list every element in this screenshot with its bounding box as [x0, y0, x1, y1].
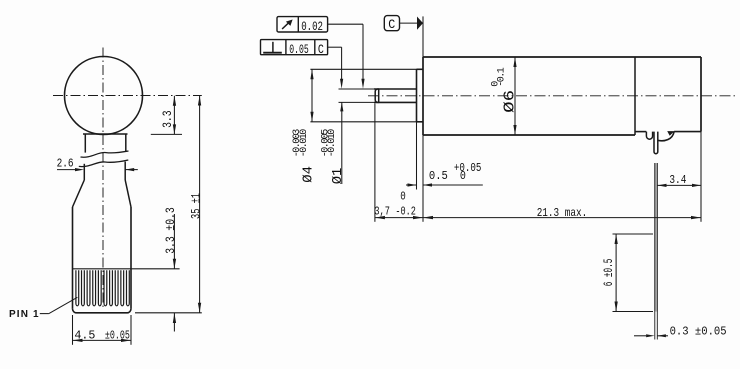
- knurl grooves: [76, 270, 129, 306]
- bushing extension lines: [310, 69, 416, 122]
- svg-text:0.3 ±0.05: 0.3 ±0.05: [670, 324, 727, 338]
- body cap separation line: [634, 57, 636, 135]
- feature frame runout 0.02: [277, 17, 328, 35]
- svg-text:Ø6: Ø6: [502, 90, 518, 113]
- dimension 4.5 ±0.05: [73, 315, 132, 345]
- terminal pin: [654, 132, 658, 154]
- dimension 0.3 ±0.05: [634, 324, 727, 338]
- dimension 35 ±1: [188, 96, 203, 313]
- terminal lead wire: [655, 163, 657, 312]
- svg-text:3.3 ±0.3: 3.3 ±0.3: [163, 207, 178, 254]
- svg-text:-0.010: -0.010: [299, 129, 310, 158]
- dimension Ø1: [340, 102, 343, 184]
- svg-text:0.05: 0.05: [289, 42, 309, 57]
- motor right edge: [700, 57, 702, 222]
- break line lower squiggle: [79, 160, 129, 167]
- knurl top line: [73, 268, 180, 270]
- svg-text:0.02: 0.02: [301, 19, 323, 34]
- svg-text:Ø1: Ø1: [330, 168, 346, 185]
- motor front face line: [422, 16, 424, 221]
- motor body outline: [423, 57, 701, 135]
- svg-text:±0.05: ±0.05: [105, 329, 130, 343]
- motor axis centerline: [368, 95, 736, 97]
- leader PIN 1: [40, 297, 78, 313]
- pin ball head: [65, 57, 143, 135]
- lead extension lines: [655, 312, 658, 340]
- leader from 0.02 frame: [328, 24, 365, 89]
- dimension Ø6: [513, 57, 516, 135]
- svg-text:C: C: [318, 42, 324, 57]
- dimension 0.5 +0.05/0: [406, 161, 483, 186]
- bottom extension line pin: [135, 312, 202, 314]
- label Ø4 tolerance: [292, 129, 317, 183]
- svg-text:0: 0: [460, 169, 466, 183]
- label PIN 1: [9, 309, 39, 320]
- bushing Ø4: [417, 69, 424, 122]
- svg-text:+0.05: +0.05: [454, 161, 482, 175]
- label Ø6 tolerance: [490, 67, 518, 113]
- dimension 3.3 ±0.3: [163, 207, 178, 331]
- svg-text:2.6: 2.6: [57, 156, 74, 170]
- svg-text:-0.2: -0.2: [395, 205, 416, 219]
- rear cap bottom edge: [635, 131, 701, 133]
- shaft Ø1: [374, 89, 417, 102]
- pin vertical centerline: [102, 48, 104, 311]
- shaft tip extension down: [374, 104, 376, 222]
- svg-text:PIN 1: PIN 1: [9, 309, 39, 320]
- pin collar below ball: [83, 134, 128, 153]
- pin body sides: [73, 207, 132, 309]
- svg-text:0.5: 0.5: [429, 169, 448, 183]
- dimension 21.3 max.: [423, 206, 701, 220]
- svg-text:-0.1: -0.1: [497, 67, 508, 87]
- ball bottom extension line: [151, 133, 182, 135]
- dimension Ø4: [310, 69, 313, 122]
- label Ø1 tolerance: [321, 129, 347, 185]
- svg-text:3.4: 3.4: [669, 173, 686, 187]
- datum C leader and triangle: [400, 17, 424, 30]
- terminal left fin: [646, 132, 652, 140]
- pin shoulder flare: [73, 180, 132, 207]
- bushing face extension down: [416, 122, 418, 190]
- dimension 3.3 ball: [160, 96, 176, 135]
- pin body rounded bottom: [73, 309, 132, 313]
- datum C box: [384, 16, 399, 32]
- svg-text:Ø4: Ø4: [301, 166, 317, 183]
- svg-text:4.5: 4.5: [74, 329, 95, 343]
- svg-text:6 ±0.5: 6 ±0.5: [601, 259, 616, 287]
- break line upper squiggle: [81, 151, 129, 157]
- svg-text:0: 0: [400, 189, 406, 203]
- dimension 3,7 0/-0.2: [374, 189, 423, 219]
- feature frame perpendicularity 0.05 C: [261, 40, 328, 57]
- leader from 0.05 frame: [328, 47, 344, 89]
- svg-text:3.3: 3.3: [160, 110, 175, 128]
- shaft extension lines left: [339, 89, 375, 102]
- svg-text:C: C: [388, 18, 395, 32]
- dimension 6 ±0.5: [601, 234, 653, 312]
- svg-text:-0.010: -0.010: [327, 129, 338, 158]
- svg-text:35 ±1: 35 ±1: [188, 193, 203, 219]
- pin neck lower section: [84, 162, 125, 180]
- svg-text:3,7: 3,7: [374, 205, 390, 219]
- dimension 2.6: [57, 156, 138, 171]
- terminal right fin: [658, 131, 675, 141]
- dimension 3.4: [658, 173, 702, 187]
- pin horizontal centerline: [53, 95, 202, 97]
- svg-text:21.3 max.: 21.3 max.: [537, 206, 588, 220]
